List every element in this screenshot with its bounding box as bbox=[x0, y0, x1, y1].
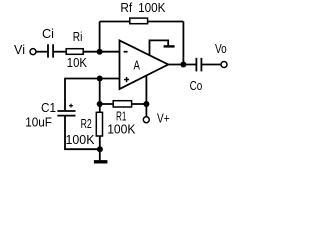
wire op-amp ground pin flag bbox=[150, 40, 169, 55]
node junction dot output bbox=[180, 62, 186, 68]
svg-text:R2: R2 bbox=[81, 116, 92, 131]
wire non-inverting input line bbox=[65, 79, 120, 111]
node junction dot ground bbox=[97, 146, 103, 152]
ground bar of op-amp pin bbox=[164, 45, 175, 47]
wire right vertical from Rf to output node bbox=[182, 22, 184, 65]
resistor Rf bbox=[130, 18, 148, 24]
svg-text:V+: V+ bbox=[157, 110, 170, 125]
wire R2 branch down to ground bbox=[99, 104, 101, 160]
op-amp non-inverting input plus sign bbox=[124, 77, 129, 82]
svg-text:C1: C1 bbox=[41, 100, 56, 115]
ground bar main bbox=[94, 160, 108, 163]
svg-text:100K: 100K bbox=[138, 0, 166, 15]
node junction dot V+ bbox=[143, 101, 149, 107]
svg-text:Ci: Ci bbox=[42, 26, 54, 41]
op-amp U1 triangle bbox=[120, 40, 169, 89]
resistor R1 bbox=[113, 101, 131, 107]
svg-text:Co: Co bbox=[190, 78, 203, 93]
resistor Ri bbox=[66, 49, 83, 55]
terminal Vi bbox=[30, 49, 36, 55]
svg-text:10K: 10K bbox=[67, 55, 87, 70]
C1 polarity plus bbox=[69, 104, 73, 108]
wire Ri to inverting input of op-amp bbox=[83, 51, 120, 53]
capacitor Co plates bbox=[196, 58, 201, 72]
svg-text:Rf: Rf bbox=[120, 0, 132, 15]
wire node A vertical up to Rf bbox=[99, 22, 101, 52]
svg-text:100K: 100K bbox=[66, 132, 95, 147]
capacitor Ci plates bbox=[48, 44, 53, 57]
svg-text:A: A bbox=[134, 58, 141, 73]
svg-text:Vi: Vi bbox=[14, 42, 25, 57]
wire op-amp output to Co bbox=[168, 64, 196, 66]
svg-text:Vo: Vo bbox=[215, 41, 227, 56]
wire Ci to Ri bbox=[54, 51, 67, 53]
wire bias node through R1 to V+ node bbox=[100, 103, 147, 105]
svg-text:100K: 100K bbox=[107, 121, 136, 136]
wire V+ pin of op-amp down to terminal bbox=[145, 76, 147, 117]
wire top feedback line through Rf bbox=[100, 21, 184, 23]
terminal V+ bbox=[143, 117, 149, 123]
wire Co to Vo terminal bbox=[202, 64, 221, 66]
op-amp inverting input minus sign bbox=[124, 51, 128, 53]
node junction dot non-inverting input bbox=[97, 76, 103, 82]
node junction dot bias left bbox=[97, 101, 103, 107]
svg-text:Ri: Ri bbox=[73, 29, 83, 44]
node junction dot inverting input bbox=[97, 49, 103, 55]
wire node B vertical to bias node bbox=[99, 79, 101, 105]
wire C1 bottom to ground node bbox=[65, 116, 100, 149]
wire input line Vi to Ci bbox=[33, 51, 47, 53]
svg-text:10uF: 10uF bbox=[25, 114, 52, 129]
capacitor C1 plates bbox=[57, 111, 75, 116]
resistor R2 bbox=[96, 112, 102, 136]
terminal Vo bbox=[221, 62, 227, 68]
